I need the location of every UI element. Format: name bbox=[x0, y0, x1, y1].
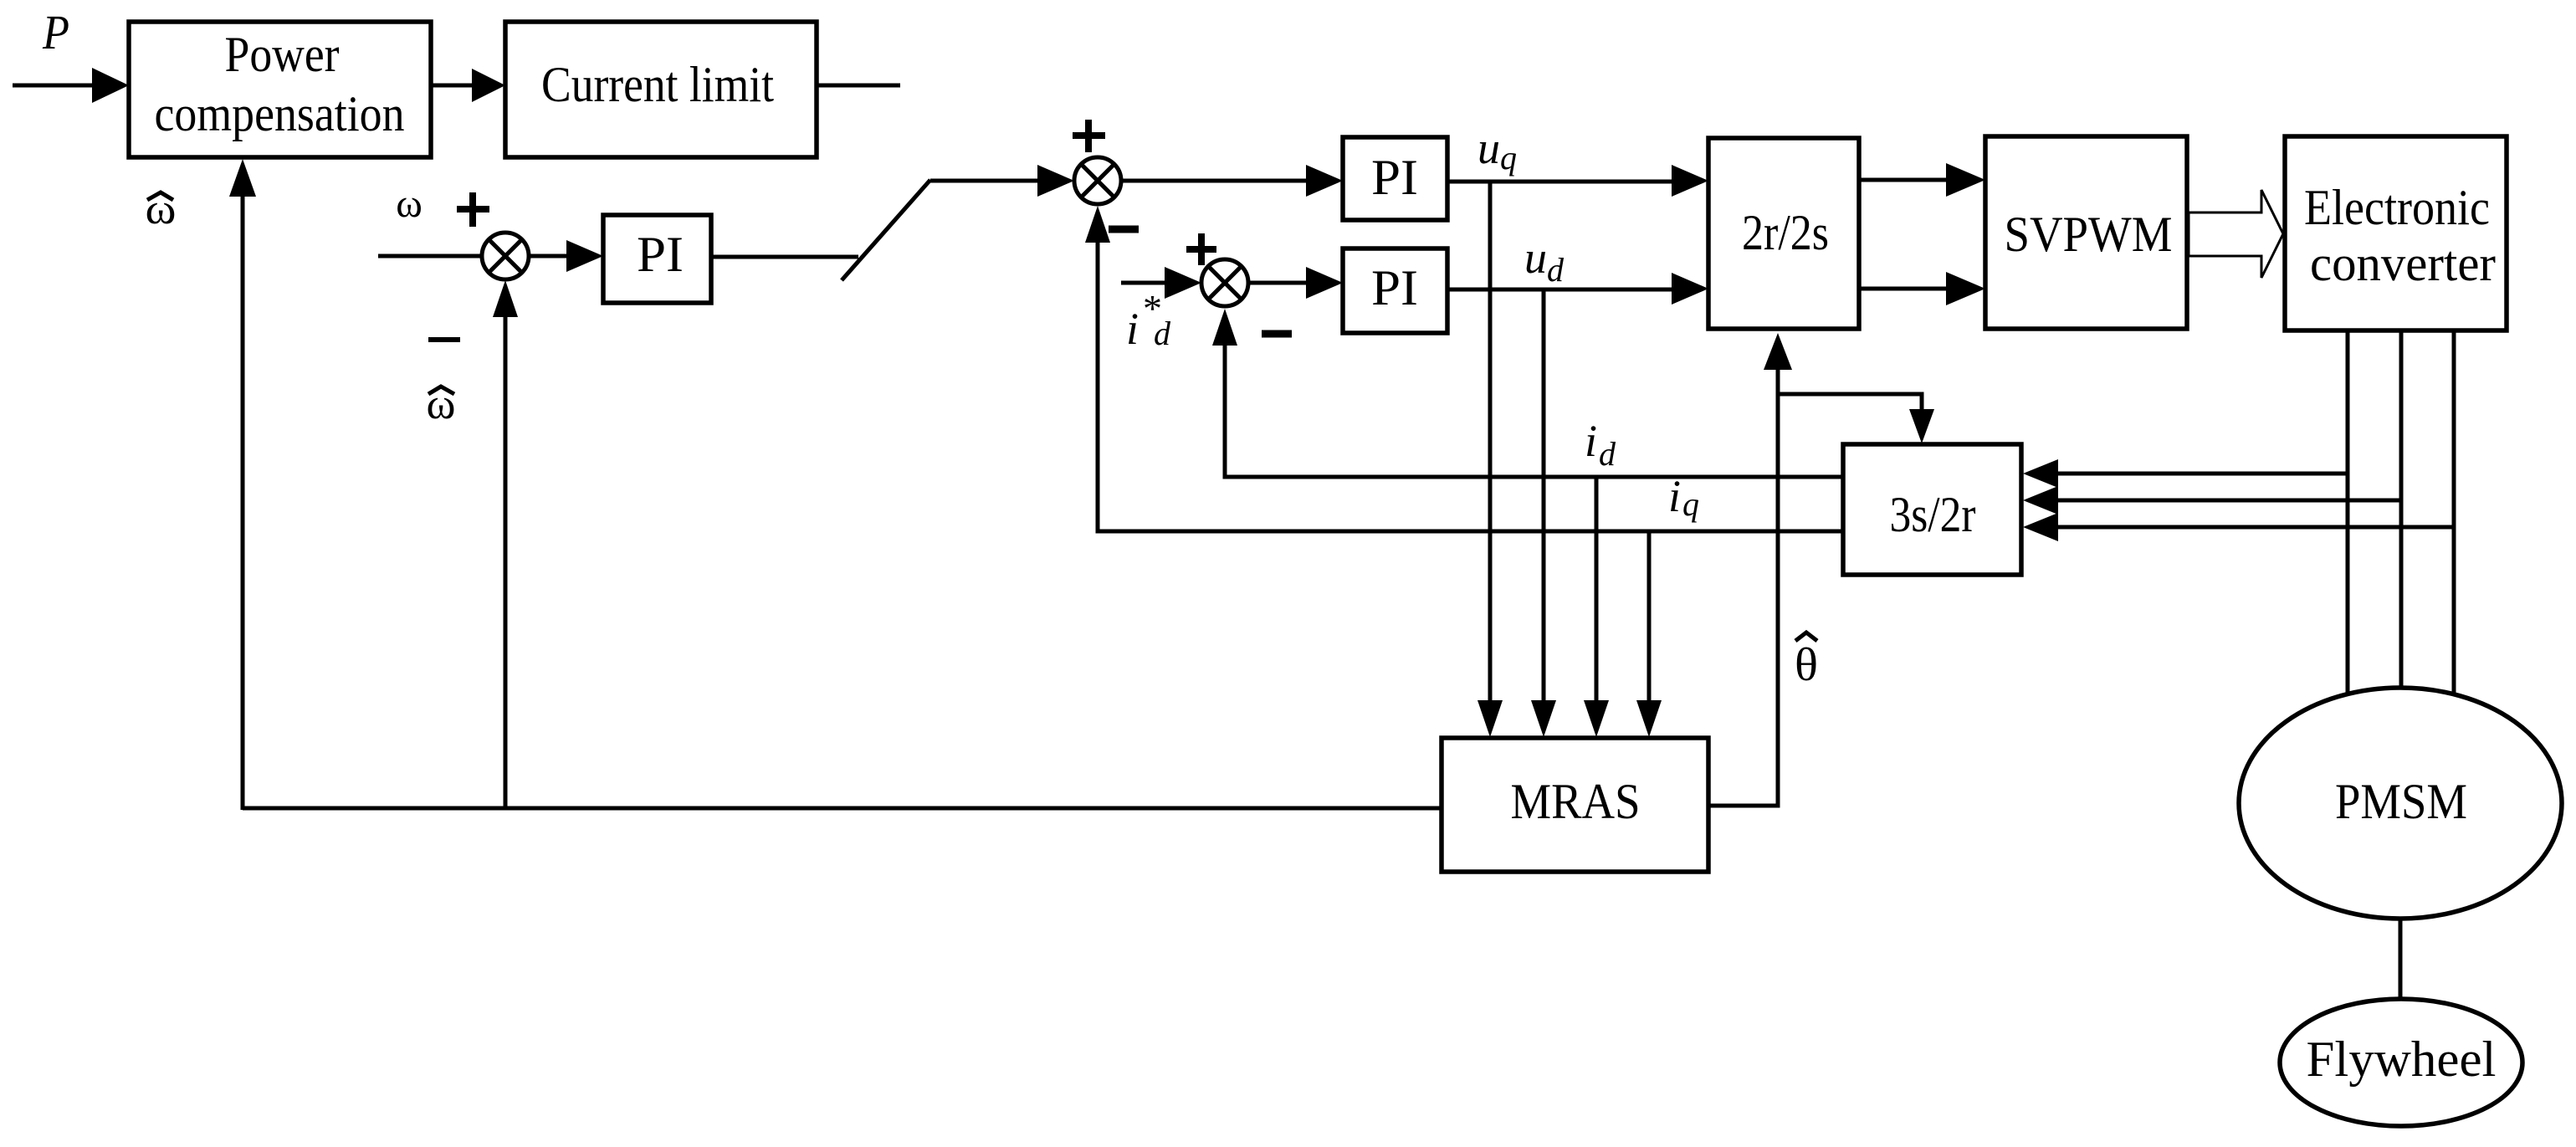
wire phase a bbox=[2346, 330, 2350, 696]
svg-text:PMSM: PMSM bbox=[2335, 774, 2467, 829]
svg-text:PI: PI bbox=[1371, 150, 1418, 205]
arrowhead up into speed junction bbox=[493, 280, 518, 317]
arrowhead into PI q bbox=[1306, 165, 1343, 197]
wire Current limit output bbox=[817, 84, 900, 88]
arrowhead up into Power compensation bbox=[229, 159, 256, 197]
svg-text:u: u bbox=[1524, 233, 1547, 283]
arrowhead phase c into 3s/2r bbox=[2023, 513, 2058, 541]
arrowhead into PI speed bbox=[566, 240, 603, 272]
label plus at speed junction bbox=[457, 192, 489, 227]
wire uq output bbox=[1447, 180, 1673, 184]
arrowhead ud into MRAS bbox=[1531, 700, 1556, 737]
svg-text:ω: ω bbox=[396, 182, 423, 226]
arrowhead id into MRAS bbox=[1584, 700, 1609, 737]
arrowhead into J2 bbox=[1037, 165, 1074, 197]
wire J3 to PI d bbox=[1248, 281, 1308, 285]
wire switch to J2 bbox=[930, 179, 1041, 183]
block Power compensation bbox=[129, 22, 431, 157]
block MRAS bbox=[1442, 738, 1708, 872]
arrowhead into PI d bbox=[1306, 267, 1343, 299]
wire P input bbox=[13, 84, 95, 88]
wire iq branch down to MRAS bbox=[1647, 531, 1652, 701]
arrowhead id into J3 bbox=[1212, 309, 1237, 346]
wire omega input bbox=[378, 254, 484, 259]
arrowhead phase b into 3s/2r bbox=[2023, 486, 2058, 515]
wire omega-hat rise to speed junction bbox=[504, 316, 508, 810]
arrowhead uq into 2r/2s bbox=[1672, 165, 1708, 197]
svg-text:converter: converter bbox=[2310, 236, 2496, 291]
svg-text:u: u bbox=[1477, 123, 1500, 173]
svg-text:PI: PI bbox=[1371, 260, 1418, 315]
wire J2 to PI q bbox=[1121, 179, 1308, 183]
svg-text:PI: PI bbox=[637, 227, 684, 282]
svg-text:i: i bbox=[1126, 304, 1139, 354]
wire id branch down to MRAS bbox=[1595, 477, 1599, 701]
label plus at J3 bbox=[1186, 233, 1216, 265]
block SVPWM bbox=[1985, 136, 2187, 329]
svg-text:i: i bbox=[1668, 471, 1681, 521]
svg-text:2r/2s: 2r/2s bbox=[1742, 205, 1829, 260]
svg-text:q: q bbox=[1500, 139, 1517, 177]
ellipse Flywheel bbox=[2280, 999, 2522, 1126]
wire phase b bbox=[2399, 330, 2404, 689]
arrowhead ud into 2r/2s bbox=[1672, 273, 1708, 305]
block PI speed controller bbox=[603, 215, 711, 303]
label minus at J3 bbox=[1262, 330, 1292, 338]
arrowhead iq into J2 bbox=[1085, 206, 1110, 243]
wire phase a to 3s/2r bbox=[2056, 472, 2348, 476]
wire i*d input bbox=[1121, 281, 1166, 285]
arrowhead into Current limit bbox=[472, 69, 505, 102]
wire phase b to 3s/2r bbox=[2056, 499, 2401, 503]
label plus at J2 bbox=[1073, 120, 1105, 152]
arrowhead into SVPWM upper bbox=[1946, 163, 1985, 197]
block PI d-axis controller bbox=[1343, 248, 1447, 333]
wire phase c bbox=[2452, 330, 2456, 696]
block arrow SVPWM to Electronic converter bbox=[2189, 190, 2283, 278]
wire omega-hat rise to Power compensation bbox=[241, 194, 245, 810]
arrowhead into J3 bbox=[1165, 267, 1201, 299]
svg-text:q: q bbox=[1682, 485, 1699, 523]
svg-text:Power: Power bbox=[225, 27, 340, 82]
arrowhead theta-hat into 2r/2s bbox=[1764, 333, 1792, 370]
arrowhead uq into MRAS bbox=[1477, 700, 1503, 737]
wire PI speed output bbox=[711, 255, 858, 259]
wire phase c to 3s/2r bbox=[2056, 525, 2454, 530]
block 2r/2s bbox=[1708, 138, 1859, 329]
switch blade bbox=[842, 180, 930, 280]
svg-text:SVPWM: SVPWM bbox=[2005, 207, 2173, 262]
wire J1 to PI speed bbox=[529, 254, 568, 259]
arrowhead phase a into 3s/2r bbox=[2023, 459, 2058, 488]
wire ud output bbox=[1447, 288, 1673, 292]
wire uq branch down to MRAS bbox=[1488, 182, 1493, 701]
svg-text:Flywheel: Flywheel bbox=[2307, 1032, 2497, 1087]
wire PMSM to Flywheel bbox=[2399, 919, 2403, 1001]
summing junction J2 q-axis bbox=[1074, 157, 1121, 204]
ellipse PMSM bbox=[2239, 688, 2562, 919]
wire iq feedback bbox=[1098, 243, 1843, 531]
block Electronic converter bbox=[2285, 136, 2507, 330]
block 3s/2r bbox=[1843, 444, 2021, 575]
label minus at speed junction bbox=[428, 337, 460, 342]
svg-text:d: d bbox=[1154, 315, 1171, 352]
wire omega-hat feedback trunk bbox=[243, 806, 1442, 811]
summing junction J1 speed bbox=[482, 233, 529, 279]
arrowhead theta-hat into 3s/2r bbox=[1909, 409, 1934, 443]
svg-text:d: d bbox=[1599, 435, 1616, 473]
arrowhead into SVPWM lower bbox=[1946, 272, 1985, 305]
arrowhead iq into MRAS bbox=[1636, 700, 1662, 737]
svg-text:3s/2r: 3s/2r bbox=[1890, 487, 1976, 542]
wire ud branch down to MRAS bbox=[1542, 289, 1546, 701]
summing junction J3 d-axis bbox=[1201, 259, 1248, 306]
svg-text:θ: θ bbox=[1795, 639, 1818, 691]
wire theta-hat branch to 3s/2r bbox=[1778, 394, 1922, 410]
wire theta-hat from MRAS bbox=[1708, 366, 1778, 806]
svg-text:Current limit: Current limit bbox=[541, 57, 774, 112]
wire id feedback bbox=[1225, 345, 1843, 477]
block PI q-axis controller bbox=[1343, 137, 1447, 220]
svg-text:compensation: compensation bbox=[155, 86, 405, 141]
wire 2r/2s to SVPWM lower bbox=[1859, 287, 1948, 291]
block Current limit bbox=[505, 22, 817, 157]
svg-text:P: P bbox=[42, 5, 69, 59]
svg-text:Electronic: Electronic bbox=[2304, 180, 2490, 235]
label minus at J2 bbox=[1109, 226, 1139, 233]
wire 2r/2s to SVPWM upper bbox=[1859, 178, 1948, 182]
svg-text:MRAS: MRAS bbox=[1511, 774, 1641, 829]
wire Power compensation to Current limit bbox=[431, 84, 472, 88]
svg-text:d: d bbox=[1547, 251, 1565, 289]
arrowhead into Power compensation bbox=[92, 68, 129, 103]
svg-text:i: i bbox=[1585, 416, 1597, 466]
